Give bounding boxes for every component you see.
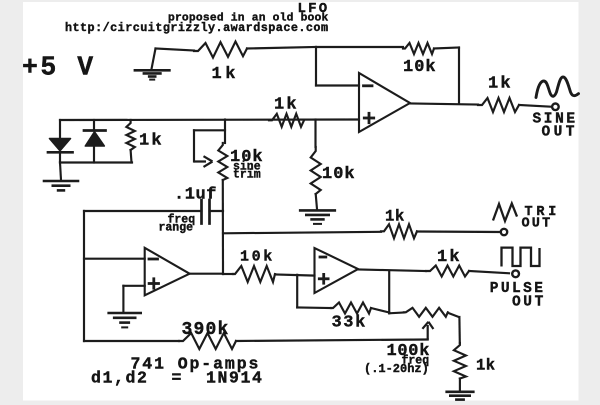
node: wire feedback top bbox=[316, 46, 403, 48]
terminal SINE OUT bbox=[552, 104, 559, 111]
wire bbox=[519, 105, 552, 107]
pot wiper arrow (100k) bbox=[422, 322, 433, 340]
potentiometer 100k freq bbox=[389, 311, 404, 314]
wire pot right drop bbox=[458, 317, 461, 343]
node junction drop bbox=[314, 120, 316, 148]
wire (drop to U1 inverting) bbox=[315, 47, 317, 86]
op-amp U3 bbox=[315, 248, 359, 293]
diode d1 bbox=[59, 120, 61, 138]
svg-text:1k: 1k bbox=[385, 208, 405, 226]
resistor R6 10k to ground bbox=[311, 147, 321, 194]
resistor R3 1k sine out bbox=[478, 98, 519, 112]
wire bbox=[297, 306, 331, 309]
triangle wave icon bbox=[493, 204, 517, 222]
U1 plus pin bbox=[364, 117, 373, 120]
pulse wave icon bbox=[502, 248, 540, 267]
resistor R4 1k to U1 plus bbox=[269, 114, 304, 127]
wire bottom run bbox=[84, 340, 179, 342]
svg-text:OUT: OUT bbox=[522, 217, 553, 232]
svg-text:range: range bbox=[159, 222, 194, 235]
svg-text:1k: 1k bbox=[437, 248, 462, 267]
pot wiper arrow (sine trim) bbox=[194, 129, 225, 131]
wire to 100k wiper bbox=[236, 340, 428, 342]
wire bbox=[371, 308, 389, 313]
wire bbox=[247, 47, 316, 49]
wire U3 output bus bbox=[388, 271, 390, 313]
svg-text:1k: 1k bbox=[139, 132, 164, 151]
svg-text:.1uf: .1uf bbox=[174, 186, 217, 205]
svg-text:OUT: OUT bbox=[542, 125, 578, 141]
node junction to 33k bbox=[296, 275, 298, 308]
resistor R8 10k bbox=[233, 266, 275, 282]
svg-text:OUT: OUT bbox=[512, 295, 546, 311]
sine wave icon bbox=[536, 77, 579, 98]
wire to U2 inverting input bbox=[84, 258, 145, 260]
svg-text:10k: 10k bbox=[322, 165, 356, 184]
wire U3 output bbox=[358, 270, 426, 272]
wire bbox=[156, 49, 195, 51]
resistor R13 1k bbox=[454, 343, 466, 379]
op-amp U2 bbox=[145, 248, 190, 295]
wire to U3 plus bbox=[275, 275, 315, 276]
wire to U1 inverting input bbox=[316, 84, 359, 86]
wire bbox=[417, 230, 501, 233]
ground (R13) bbox=[447, 390, 474, 393]
U3 minus pin bbox=[320, 256, 326, 259]
svg-text:10k: 10k bbox=[403, 58, 437, 77]
U2 minus pin bbox=[149, 258, 158, 261]
wire left feedback bus bbox=[83, 211, 85, 341]
resistor R5 1k diode shunt bbox=[126, 120, 134, 150]
wire (feedback right drop) bbox=[458, 48, 460, 104]
wire diode bottom rail bbox=[60, 161, 132, 163]
resistor R10 390k bbox=[179, 333, 236, 349]
U1 minus pin bbox=[364, 84, 373, 87]
wire U2 output bbox=[190, 273, 223, 275]
U2 plus pin bbox=[149, 282, 158, 285]
U3 plus pin bbox=[319, 277, 328, 280]
svg-text:d1,d2 = 1N914: d1,d2 = 1N914 bbox=[91, 369, 264, 388]
resistor R11 33k bbox=[331, 303, 371, 314]
terminal TRI OUT bbox=[501, 229, 507, 235]
svg-text:1k: 1k bbox=[212, 65, 239, 84]
wire TRI line bbox=[223, 232, 381, 234]
wire U1 output bbox=[410, 104, 478, 105]
svg-text:1k: 1k bbox=[274, 96, 299, 115]
resistor R1 1k bbox=[194, 42, 247, 58]
svg-text:10k: 10k bbox=[240, 249, 275, 266]
wire bbox=[469, 271, 509, 273]
resistor R7 1k tri out bbox=[381, 224, 417, 238]
potentiometer 10k sine trim bbox=[224, 120, 226, 144]
wire U2 plus to ground bbox=[123, 285, 144, 287]
svg-text:trim: trim bbox=[233, 169, 261, 182]
wire bus (pot bottom to U2 output) bbox=[222, 180, 224, 274]
capacitor .1uf bbox=[84, 210, 202, 212]
ground (R6) bbox=[300, 209, 335, 212]
ground (top left) bbox=[152, 49, 156, 70]
diode d2 bbox=[93, 120, 95, 131]
svg-text:1k: 1k bbox=[476, 357, 495, 375]
svg-text:(.1-20hz): (.1-20hz) bbox=[364, 362, 429, 376]
svg-text:1k: 1k bbox=[488, 75, 513, 94]
ground (U2 plus) bbox=[109, 312, 141, 315]
wire U2 out to R8 bbox=[223, 273, 233, 275]
svg-text:33k: 33k bbox=[332, 314, 367, 333]
terminal PULSE OUT bbox=[512, 270, 519, 277]
op-amp U1 bbox=[359, 73, 410, 132]
svg-text:390k: 390k bbox=[182, 320, 230, 340]
wire mid rail bbox=[60, 118, 359, 121]
resistor R9 1k pulse out bbox=[426, 266, 469, 277]
ground (diodes) bbox=[60, 163, 61, 181]
resistor R2 10k feedback bbox=[403, 43, 434, 54]
svg-text:http:/circuitgrizzly.awardspac: http:/circuitgrizzly.awardspace.com bbox=[65, 21, 329, 35]
svg-text:+5 V: +5 V bbox=[22, 53, 96, 83]
wire bbox=[434, 48, 459, 49]
